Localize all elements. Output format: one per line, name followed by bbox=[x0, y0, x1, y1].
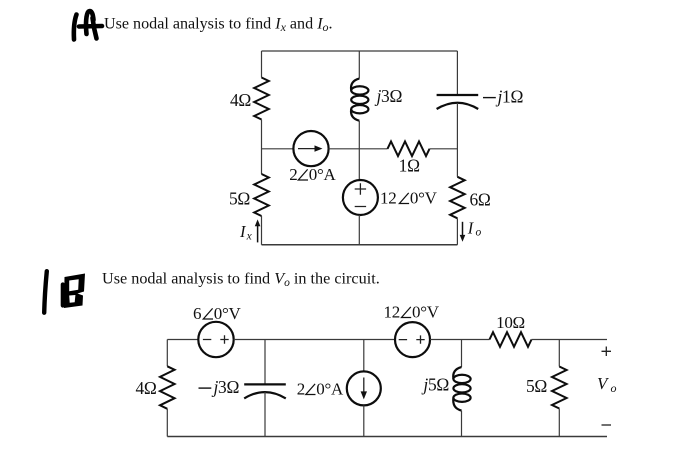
svg-text:1Ω: 1Ω bbox=[399, 156, 420, 176]
wire: 1A middle horizontal left segment bbox=[262, 148, 294, 150]
label 6 angle 0 V bbox=[193, 304, 241, 323]
svg-text:5Ω: 5Ω bbox=[229, 189, 250, 209]
svg-text:j5Ω: j5Ω bbox=[421, 375, 449, 395]
wire: 1B top rail seg2 bbox=[234, 339, 395, 341]
svg-text:12: 12 bbox=[384, 303, 400, 322]
svg-text:2: 2 bbox=[289, 165, 297, 184]
wire: 1B top rail seg4 bbox=[532, 339, 608, 341]
svg-text:0°V: 0°V bbox=[214, 304, 242, 323]
handwritten label 1B bbox=[44, 271, 85, 313]
wire: 1A right branch mid segment bbox=[456, 103, 458, 177]
resistor R 4ohm (1A left) bbox=[254, 78, 269, 120]
svg-text:j3Ω: j3Ω bbox=[212, 377, 240, 397]
output terminal plus bbox=[602, 347, 612, 357]
svg-text:6Ω: 6Ω bbox=[470, 189, 491, 209]
wire: 1B branch3 bottom bbox=[363, 405, 365, 436]
label 2 angle 0 A bbox=[289, 165, 336, 184]
wire: 1A middle branch bottom segment bbox=[358, 215, 360, 245]
svg-text:4Ω: 4Ω bbox=[135, 378, 156, 398]
wire: 1B branch5 bottom bbox=[558, 409, 560, 437]
wire: 1A right branch bottom segment bbox=[456, 218, 458, 245]
resistor R 4ohm (1B) bbox=[160, 366, 175, 409]
wire: 1B branch4 bottom bbox=[461, 411, 463, 437]
resistor R 5ohm (1B) bbox=[552, 367, 567, 409]
wire: 1B left branch top bbox=[166, 340, 168, 367]
output terminal minus bbox=[602, 424, 612, 426]
inductor L j5ohm bbox=[453, 367, 470, 411]
wire: 1B top rail seg3 bbox=[430, 339, 490, 341]
wire: 1B branch3 top bbox=[363, 340, 365, 372]
handwritten label 1A bbox=[74, 11, 102, 39]
svg-text:0°V: 0°V bbox=[412, 303, 440, 322]
svg-text:o: o bbox=[476, 227, 482, 239]
svg-text:I: I bbox=[467, 219, 475, 238]
current source I1 2 angle 0 A (1A) bbox=[293, 131, 328, 166]
inductor L j3ohm bbox=[351, 79, 368, 121]
svg-text:x: x bbox=[246, 231, 253, 243]
svg-text:Use nodal analysis to find Vo: Use nodal analysis to find Vo in the cir… bbox=[102, 269, 380, 289]
wire: 1A top rail bbox=[262, 50, 458, 52]
wire: 1A middle branch top segment bbox=[358, 51, 360, 79]
wire: 1B left branch bottom bbox=[166, 409, 168, 437]
arrow Ix bbox=[255, 219, 261, 242]
svg-text:12: 12 bbox=[380, 189, 396, 208]
label 2 angle 0 A (1B) bbox=[297, 380, 344, 399]
svg-text:0°V: 0°V bbox=[410, 189, 438, 208]
resistor R 10ohm (1B horizontal) bbox=[490, 332, 532, 347]
wire: 1B branch5 top bbox=[558, 340, 560, 367]
wire: 1A left branch upper segment bbox=[261, 51, 263, 78]
wire: 1B bottom rail bbox=[167, 436, 607, 438]
wire: 1A middle horizontal mid segment bbox=[329, 148, 388, 150]
svg-text:V: V bbox=[597, 374, 610, 393]
wire: 1A right branch top segment bbox=[456, 51, 458, 95]
wire: 1A left branch lower segment bbox=[261, 216, 263, 245]
svg-text:10Ω: 10Ω bbox=[496, 313, 525, 332]
resistor R 1ohm (1A horizontal) bbox=[388, 142, 430, 157]
svg-text:j3Ω: j3Ω bbox=[375, 86, 403, 106]
wire: 1B branch2 bottom bbox=[264, 392, 266, 437]
resistor R 6ohm (1A right) bbox=[450, 177, 465, 219]
wire: 1A middle branch mid segment bbox=[358, 121, 360, 180]
capacitor C -j1ohm bbox=[437, 95, 479, 109]
resistor R 5ohm (1A left) bbox=[254, 174, 269, 216]
label 12 angle 0 V (1B) bbox=[384, 303, 440, 322]
wire: 1B branch2 top bbox=[264, 340, 266, 385]
svg-text:Use nodal analysis to find Ix: Use nodal analysis to find Ix and Io. bbox=[104, 15, 333, 34]
voltage source 12 angle 0 V (1B) bbox=[395, 322, 430, 357]
label -j1ohm bbox=[483, 97, 496, 99]
wire: 1A bottom rail bbox=[262, 244, 458, 246]
svg-text:j1Ω: j1Ω bbox=[496, 87, 524, 107]
svg-text:0°A: 0°A bbox=[309, 165, 337, 184]
label -j3ohm bbox=[199, 387, 212, 389]
wire: 1A left branch middle segment bbox=[261, 120, 263, 175]
svg-text:o: o bbox=[611, 381, 617, 395]
voltage source 6 angle 0 V bbox=[198, 322, 233, 357]
svg-text:0°A: 0°A bbox=[316, 380, 344, 399]
current source 2 angle 0 A (1B) bbox=[347, 371, 381, 405]
label 12 angle 0 V bbox=[380, 189, 438, 208]
svg-text:6: 6 bbox=[193, 304, 201, 323]
svg-text:4Ω: 4Ω bbox=[230, 90, 251, 110]
svg-text:5Ω: 5Ω bbox=[526, 376, 547, 396]
capacitor C -j3ohm bbox=[244, 384, 286, 398]
svg-text:2: 2 bbox=[297, 380, 305, 399]
wire: 1B top rail seg1 bbox=[167, 339, 198, 341]
voltage source V1 12 angle 0 V (1A) bbox=[343, 180, 378, 215]
arrow Io bbox=[460, 222, 466, 242]
wire: 1A middle horizontal end segment bbox=[430, 148, 458, 150]
wire: 1B branch4 top bbox=[461, 340, 463, 368]
